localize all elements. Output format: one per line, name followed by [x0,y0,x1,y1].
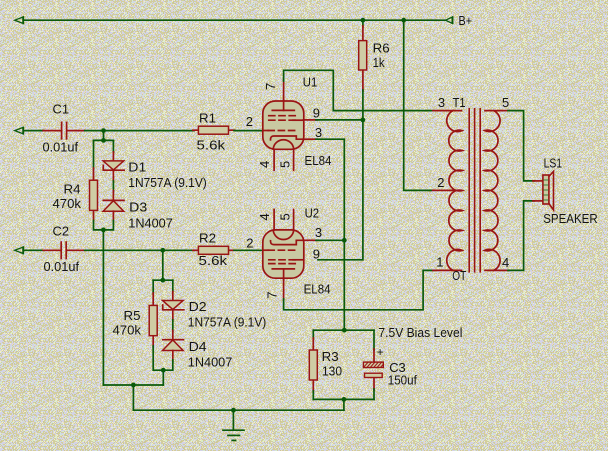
svg-text:SPEAKER: SPEAKER [543,211,598,226]
wire bracket B to D2 [172,280,174,292]
wire T1 pin4 to LS1 [508,201,544,271]
wire bias bracket top [313,329,374,331]
svg-text:7: 7 [263,83,278,90]
resistor R5 [149,293,157,347]
wire D1 to D3 [112,181,114,192]
svg-text:3: 3 [315,125,322,140]
ground [223,410,244,440]
T1 pin 5 lead [485,110,509,112]
input terminal (row C1) [15,127,24,135]
node B2 (below R5/D4) [161,368,166,373]
svg-text:5: 5 [278,161,293,168]
svg-text:R1: R1 [199,110,216,125]
svg-text:+: + [377,347,384,359]
capacitor C1 [43,122,85,138]
wire U1 pin3 down to U2 pin3 node [304,139,345,240]
wire R1 to U1 pin2 [234,130,263,132]
svg-text:LS1: LS1 [544,155,563,170]
wire bracket B to R5 [152,280,154,294]
svg-text:1N757A (9.1V): 1N757A (9.1V) [188,315,266,330]
node ground tap [231,408,236,413]
svg-text:1N4007: 1N4007 [188,354,233,369]
wire R2 to U2 pin2 [234,249,263,251]
svg-text:1N757A (9.1V): 1N757A (9.1V) [128,175,207,190]
svg-text:R3: R3 [322,349,339,364]
svg-text:7: 7 [265,292,280,299]
svg-text:9: 9 [313,105,320,120]
wire U1 pin7 to T1 pin3 [284,70,462,110]
wire R5 bottom to bracket B2 [153,346,163,370]
svg-text:U2: U2 [305,205,320,220]
wire bias bracket bottom [313,398,374,400]
wire input to C1 [25,130,45,132]
svg-text:1N4007: 1N4007 [128,216,173,231]
node C1/R1/bias-A junction [101,128,106,133]
wire U2 pin7 to T1 pin1 [284,270,462,309]
input terminal (row C2) [15,246,24,254]
T1 secondary winding [485,111,500,271]
T1 primary winding [447,111,462,271]
svg-text:5: 5 [502,95,509,110]
wire C3 bottom to bracket [373,389,375,399]
node B+ rail / T1 pin2 junction [401,18,406,23]
diode D2 (zener) [163,292,184,322]
wire bias bottom to ground rail [343,399,345,410]
wire B+ to T1 pin2 [404,20,431,190]
wire bracket A horizontal [94,139,114,141]
wire node B1 to R2 [163,249,194,251]
svg-text:C2: C2 [53,224,70,239]
diode D1 (zener) [103,152,124,182]
capacitor C3 (electrolytic) [363,349,385,390]
resistor R6 [359,26,367,91]
wire bracket to R3 [312,330,314,339]
op-amp U1 (EL84 pentode tube) [263,100,304,170]
svg-text:5: 5 [278,213,293,220]
svg-text:3: 3 [315,225,322,240]
svg-text:5.6k: 5.6k [199,253,228,268]
op-amp U2 (EL84 pentode tube, mirrored) [263,210,304,280]
svg-text:2: 2 [437,175,444,190]
svg-text:0.01uf: 0.01uf [44,259,80,274]
input terminal (top left) [15,16,24,24]
svg-text:R5: R5 [124,308,141,323]
wire node down to bracket A [103,131,105,141]
wire bracket A to D1 [112,140,114,153]
svg-text:470k: 470k [53,196,82,211]
svg-text:130: 130 [322,364,342,379]
wire drop to ground rail [132,385,134,410]
svg-text:OT: OT [452,269,466,283]
wire D4 bottom to bracket B2 [163,360,173,370]
resistor R1 [193,126,235,134]
wire bracket B horizontal [153,279,173,281]
wire D3 bottom to node A2 [103,221,113,230]
svg-text:0.01uf: 0.01uf [43,140,79,155]
svg-text:470k: 470k [113,323,142,338]
diode D3 [103,191,124,222]
node bracket A [101,138,106,143]
svg-text:3: 3 [438,95,445,110]
node bias top [342,328,347,333]
svg-text:1: 1 [436,255,443,270]
wire bottom run (left riser to B2 drop) [103,384,163,386]
svg-text:9: 9 [313,246,320,261]
node C2/R2/bias-B junction [160,248,165,253]
svg-text:2: 2 [246,235,253,250]
node B+ rail / R6 junction [361,18,366,23]
svg-text:4: 4 [257,161,272,168]
svg-text:C1: C1 [53,101,70,116]
wire ground rail [133,409,344,411]
speaker LS1 [543,171,554,210]
resistor R4 [90,168,98,222]
svg-text:R2: R2 [199,230,216,245]
node U1 pin9 / R6 [361,118,366,123]
wire R3 bottom to bracket [312,391,314,399]
wire node to R1 [104,130,195,132]
wire C1 to node [85,130,104,132]
T1 core [468,109,470,272]
node ground drop [131,383,136,388]
node bracket B [160,278,165,283]
wire bracket to C3 [373,330,375,350]
wire U1 pin9 to node [304,119,363,121]
svg-text:EL84: EL84 [305,153,332,168]
resistor R3 [309,338,317,392]
svg-text:4: 4 [257,213,272,220]
wire input to C2 [25,249,45,251]
svg-text:D1: D1 [128,159,146,174]
svg-text:5.6k: 5.6k [197,137,226,152]
svg-text:R6: R6 [373,40,390,55]
svg-text:T1: T1 [453,95,466,110]
svg-text:D2: D2 [189,299,207,314]
svg-text:D4: D4 [189,339,207,354]
T1 pin 4 lead [485,269,509,271]
wire node A2 down left riser [102,230,104,385]
wire D2 to D4 [172,320,174,332]
svg-text:1k: 1k [373,55,385,70]
node bias bottom [342,397,347,402]
svg-text:U1: U1 [303,75,318,90]
svg-text:4: 4 [502,255,509,270]
wire R6 top stub [362,20,364,27]
transformer T1 [430,109,509,272]
svg-text:D3: D3 [129,200,147,215]
wire C2 to node B1 (crosses left riser) [85,249,163,251]
svg-text:7.5V Bias Level: 7.5V Bias Level [378,325,462,340]
svg-text:R4: R4 [64,182,81,197]
svg-text:150uf: 150uf [388,372,417,387]
diode D4 [163,331,184,362]
resistor R2 [193,246,235,254]
wire U2 pin3 to node [304,239,345,241]
node U1 pin3 / U2 pin3 [342,238,347,243]
wire T1 pin5 to LS1 [508,111,544,181]
wire B+ rail [24,19,445,21]
svg-text:EL84: EL84 [304,281,331,296]
capacitor C2 [43,242,85,258]
wire pin3 node down to bias bracket [343,240,345,330]
wire node B2 down to bottom run [162,370,164,385]
wire U1 pin9 node down to U2 pin9 [318,120,363,260]
svg-text:2: 2 [246,114,253,129]
wire R4 bottom to node A2 [94,221,104,230]
wire node B1 down to bracket B [162,250,164,280]
wire bracket A to R4 [93,140,95,169]
T1 pin 2 lead [430,189,462,191]
wire R6 bottom to U1 pin9 node [362,90,364,120]
svg-text:B+: B+ [459,13,473,28]
node A2 (below R4/D3) [101,228,106,233]
terminal B+ [446,16,453,24]
